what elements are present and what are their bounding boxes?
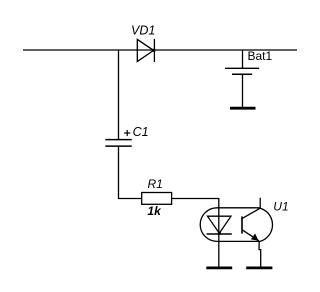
node LED cathode junction dot <box>218 232 221 235</box>
wire junction to C1 vertical <box>118 50 120 140</box>
ground (emitter) <box>246 266 272 269</box>
LED (inside U1) <box>207 216 232 234</box>
diode VD1 <box>137 39 154 62</box>
svg-text:R1: R1 <box>148 177 163 191</box>
resistor R1 <box>142 193 172 205</box>
ground (LED) <box>206 266 232 269</box>
wire C1 to R1 <box>119 146 142 198</box>
ground (battery) <box>230 107 256 110</box>
transistor (inside U1) <box>242 208 260 241</box>
node diode cathode junction dot <box>152 49 155 52</box>
svg-text:U1: U1 <box>273 200 288 214</box>
wire collector stub <box>259 198 261 208</box>
wire R1 to LED anode <box>172 199 219 208</box>
op-to-coupler U1 outline <box>200 208 272 242</box>
capacitor C1 <box>105 130 131 146</box>
wire top horizontal <box>23 49 297 51</box>
wire LED anode through optocoupler to ground <box>218 208 220 267</box>
svg-text:1k: 1k <box>147 204 162 218</box>
svg-text:VD1: VD1 <box>131 23 155 37</box>
svg-text:Bat1: Bat1 <box>248 49 273 63</box>
wire emitter to ground <box>259 241 261 266</box>
battery Bat1 <box>225 50 259 107</box>
svg-text:C1: C1 <box>133 125 149 139</box>
